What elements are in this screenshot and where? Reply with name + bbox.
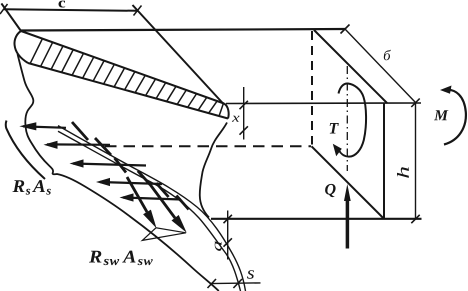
- label b: [384, 50, 391, 61]
- rebar band top line: [58, 126, 246, 291]
- stirrup stroke 2: [95, 138, 111, 155]
- Rs As arrowhead 4: [96, 178, 110, 186]
- dimension c left tick: [0, 4, 8, 14]
- crack hatched band bottom boundary: [28, 63, 228, 119]
- rebar band bottom line: [58, 131, 241, 291]
- beam top near edge: [21, 29, 346, 31]
- Rs As arrow 4: [100, 182, 162, 184]
- T torque loop: [339, 83, 367, 156]
- Rs As arrowhead 3: [70, 159, 84, 167]
- crack band left round cap: [14, 31, 28, 63]
- crack band hatching: [30, 39, 224, 117]
- Q arrowhead: [344, 184, 351, 201]
- far bottom edge: [211, 218, 422, 220]
- Rsw arrow 2 shaft: [149, 183, 175, 218]
- stirrup stroke 6: [176, 196, 188, 210]
- Rs As arrowhead 1: [19, 122, 36, 130]
- crack curve on side face: [200, 123, 227, 218]
- dimension h bottom tick: [411, 215, 419, 223]
- dimension h line: [415, 103, 417, 220]
- dimension c right tick: [134, 6, 142, 16]
- x bottom tick: [240, 126, 248, 134]
- label s: [247, 270, 254, 278]
- dimension c line: [4, 9, 138, 11]
- Rsw leader triangle: [142, 228, 186, 241]
- Rs As arrowhead 2: [44, 141, 58, 149]
- beam top depth edge: [314, 30, 387, 103]
- Rs As arrow 3: [73, 164, 146, 166]
- Rs As arrow 1: [23, 126, 66, 127]
- label T: [330, 123, 339, 134]
- T loop arrowhead: [333, 144, 342, 156]
- label c: [59, 1, 66, 8]
- leader hook line at left: [6, 121, 45, 180]
- M moment arc: [444, 90, 466, 145]
- a dimension line: [227, 211, 229, 260]
- crack hatched band top boundary: [21, 31, 224, 104]
- x top tick: [240, 101, 248, 109]
- label h: [397, 167, 409, 178]
- dimension h top tick: [411, 99, 419, 108]
- label Q: [325, 184, 336, 197]
- Rs As arrow 2: [47, 143, 110, 146]
- dash-dot axis of Q: [346, 66, 348, 171]
- label M: [434, 110, 448, 120]
- extension line left of c: [1, 3, 21, 31]
- x dimension line: [243, 87, 245, 140]
- bottom depth edge: [312, 146, 385, 219]
- a bottom tick: [224, 238, 232, 246]
- stirrup stroke 4: [138, 171, 150, 185]
- Rs As arrowhead 5: [120, 193, 134, 201]
- dimension b line: [345, 29, 416, 103]
- stirrup stroke 3: [115, 158, 127, 173]
- Q force arrow shaft: [346, 199, 350, 249]
- crack band right round cap: [224, 104, 229, 119]
- dimension b start tick: [341, 25, 350, 34]
- hidden near bottom edge (dashed): [105, 145, 311, 147]
- broken-away edge curve: [18, 54, 219, 291]
- extension line right of c to crack tip: [133, 5, 225, 105]
- label Rsw Asw: [89, 251, 153, 266]
- a top tick: [224, 215, 232, 223]
- label a: [215, 241, 222, 251]
- Rsw arrow 1 shaft: [127, 177, 147, 212]
- arrowheads (filled): [19, 86, 451, 233]
- label Rs As: [13, 180, 51, 195]
- s right tick: [233, 279, 242, 288]
- s left tick: [208, 279, 217, 288]
- s dimension line: [210, 282, 261, 285]
- Rs As arrow 5: [123, 198, 181, 200]
- M arrowhead: [440, 86, 452, 94]
- stirrup stroke 1: [72, 122, 88, 140]
- hidden near right edge (dashed): [311, 31, 313, 145]
- Rsw arrowhead 2: [172, 215, 187, 233]
- label x: [232, 116, 240, 122]
- far top edge: [226, 102, 421, 105]
- far right vertical edge: [383, 103, 385, 219]
- Rsw arrowhead 1: [143, 210, 156, 229]
- stirrup stroke 5: [156, 183, 168, 197]
